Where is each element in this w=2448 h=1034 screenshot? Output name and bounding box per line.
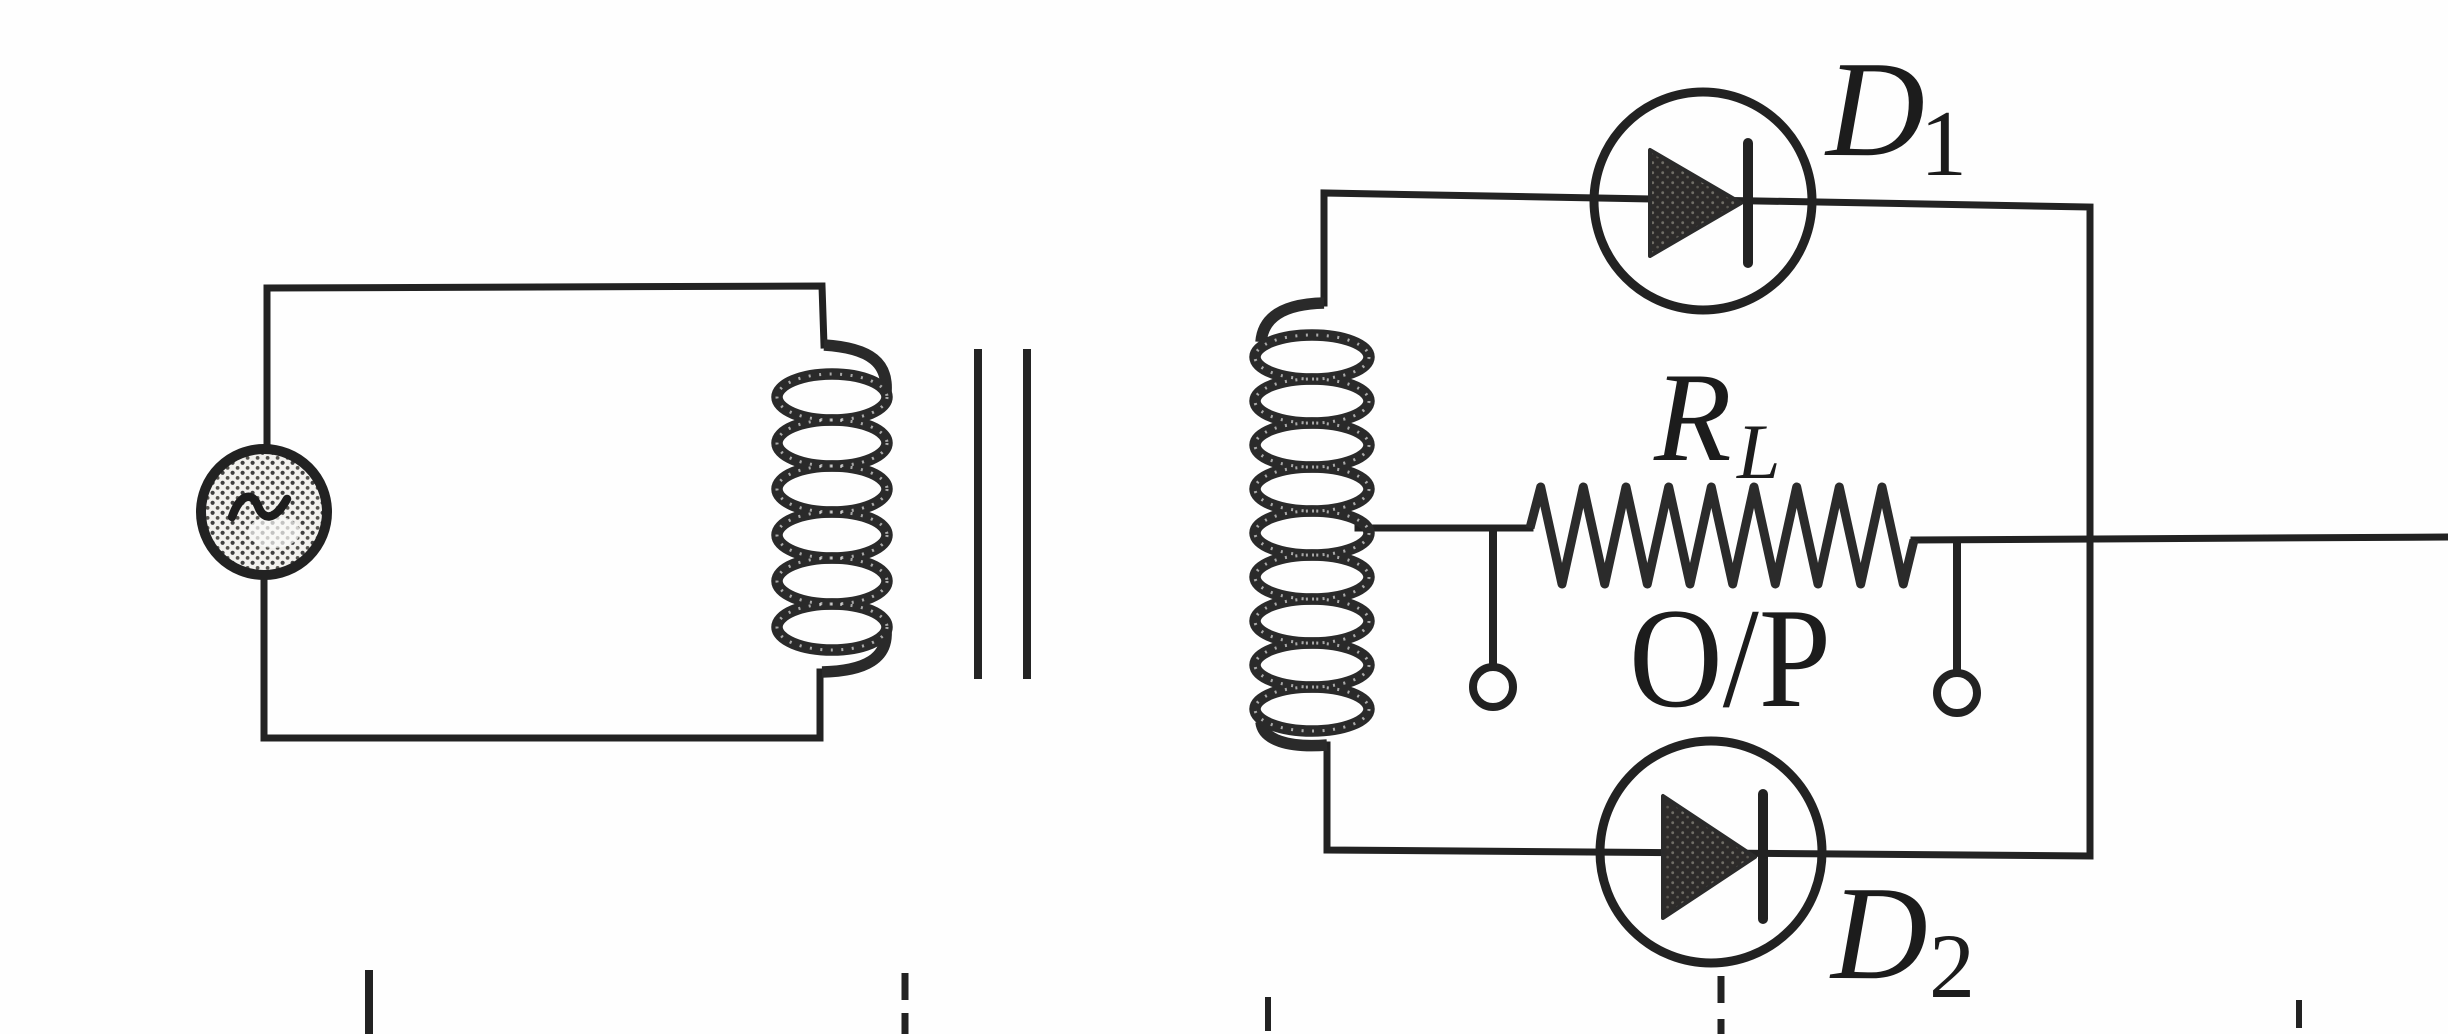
svg-text:O/P: O/P — [1629, 579, 1831, 737]
svg-text:L: L — [1736, 408, 1780, 495]
svg-text:D: D — [1824, 33, 1925, 185]
svg-text:1: 1 — [1920, 92, 1967, 196]
svg-text:D: D — [1829, 859, 1928, 1007]
svg-text:R: R — [1653, 348, 1732, 488]
svg-text:2: 2 — [1929, 915, 1975, 1017]
